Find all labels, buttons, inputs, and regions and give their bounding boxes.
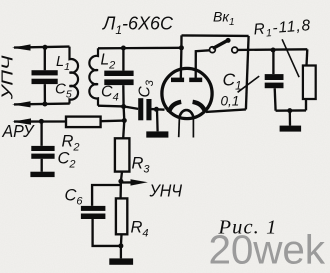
resistor R1 xyxy=(303,66,316,100)
wire L2C4 tank top to anode xyxy=(98,47,181,50)
arrow to АРУ xyxy=(12,118,31,124)
wire R2 right lead xyxy=(101,119,125,122)
svg-text:УНЧ: УНЧ xyxy=(149,181,183,201)
tube anode plate left xyxy=(171,78,184,83)
paper noise xyxy=(0,0,1,1)
wire C4 stubs xyxy=(122,48,125,106)
wire C4 branch down to R2/R3 xyxy=(123,106,124,138)
ground (bottom) xyxy=(109,258,133,264)
resistor R3 xyxy=(115,138,129,171)
wire right vertical of loop xyxy=(246,36,249,110)
node C2 tap xyxy=(39,119,44,124)
wire УПЧ bottom lead xyxy=(14,102,70,105)
tube cathode right arc xyxy=(193,102,206,113)
wire C3 to tube node xyxy=(152,108,165,111)
ground (below C2) xyxy=(30,172,54,177)
wire L2C4 tank bottom xyxy=(98,105,124,108)
node C4 top tap xyxy=(121,46,126,51)
wire heater lead left xyxy=(178,118,181,137)
node C4 bottom tap xyxy=(121,104,126,109)
node C1 tap xyxy=(271,48,276,53)
capacitor C6 xyxy=(81,206,106,219)
svg-text:0,1: 0,1 xyxy=(221,94,240,109)
wire left anode lead up xyxy=(180,35,183,79)
ground (right) xyxy=(280,126,302,132)
wire УПЧ top lead xyxy=(14,47,70,48)
capacitor C3 xyxy=(138,98,151,120)
node ground tap xyxy=(287,108,292,113)
capacitor C4 xyxy=(104,71,133,86)
wire C2 stubs xyxy=(40,121,42,171)
capacitor C1 xyxy=(265,74,284,88)
node anode/tank junction xyxy=(179,45,184,50)
tube anode plate right xyxy=(189,78,202,83)
wire C6 bottom return xyxy=(93,219,121,246)
wire C5 stubs xyxy=(44,47,46,104)
wire tank to C3 xyxy=(124,106,139,109)
wire R1 bottom xyxy=(305,99,307,110)
switch Вк1 right contact xyxy=(232,47,238,53)
switch Вк1 lever xyxy=(214,40,228,48)
node R3/R4 junction xyxy=(118,179,123,184)
wire C1 stubs xyxy=(273,50,275,111)
wire node to ground xyxy=(156,109,159,131)
arrow to УПЧ (bottom) xyxy=(12,101,31,107)
pointer line C1 label xyxy=(238,76,260,92)
tube cathode left arc xyxy=(169,102,181,113)
arrow to УНЧ xyxy=(121,181,134,183)
node R2/R3 junction xyxy=(122,118,127,123)
pointer line R1 label xyxy=(282,39,299,77)
inductor L1 xyxy=(70,47,79,104)
inductor L2 xyxy=(89,48,98,105)
resistor R4 xyxy=(116,198,127,234)
tube heater arch xyxy=(179,110,193,118)
tube U1 envelope xyxy=(162,68,212,118)
wire loop bottom to cathode xyxy=(206,109,246,112)
resistor R2 xyxy=(66,117,101,128)
wire junction to R4 xyxy=(119,181,122,198)
wire down to R1 xyxy=(305,49,308,65)
ground (below C3) xyxy=(146,131,168,137)
wire top line xyxy=(182,34,249,37)
svg-text:20wek: 20wek xyxy=(209,227,326,273)
svg-text:АРУ: АРУ xyxy=(2,121,36,141)
capacitor C2 xyxy=(31,146,54,159)
wire bottom rail xyxy=(276,109,306,112)
wire C6 branch xyxy=(92,185,121,206)
wire heater lead right xyxy=(192,118,194,138)
wire right anode lead to switch xyxy=(196,50,210,79)
wire ground stub xyxy=(289,111,292,126)
svg-text:УПЧ: УПЧ xyxy=(0,55,16,100)
node on УПЧ top lead (C5 tap) xyxy=(43,45,48,50)
node at C3 output xyxy=(154,107,159,112)
arrow to УПЧ (top) xyxy=(12,44,31,50)
wire to bottom ground xyxy=(120,246,122,259)
wire R2 left lead to АРУ xyxy=(14,120,66,122)
node bottom junction xyxy=(118,243,123,248)
svg-text:Л1-6Х6С: Л1-6Х6С xyxy=(102,14,174,38)
wire R3 bottom to junction xyxy=(121,172,122,182)
wire R4 bottom xyxy=(120,234,123,246)
node on УПЧ bottom lead (C5 tap) xyxy=(42,102,47,107)
capacitor C5 xyxy=(32,70,58,84)
wire switch output xyxy=(238,48,308,51)
switch Вк1 left contact xyxy=(210,47,216,53)
